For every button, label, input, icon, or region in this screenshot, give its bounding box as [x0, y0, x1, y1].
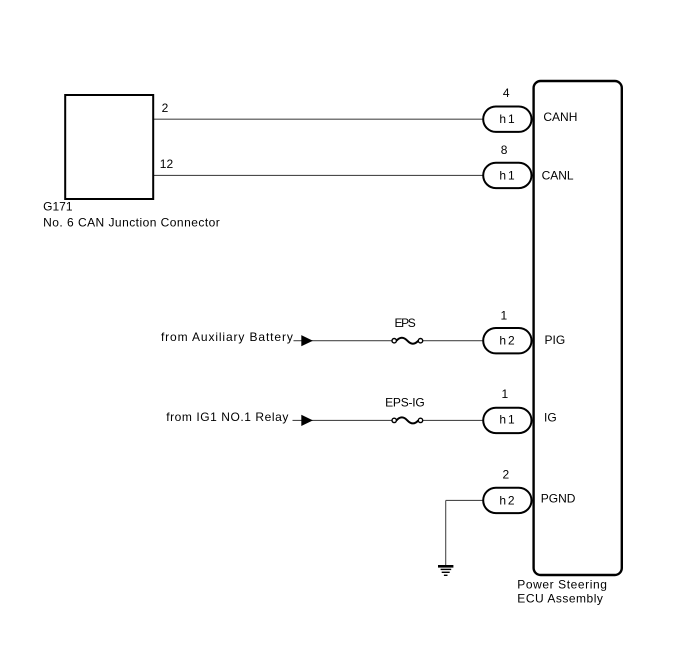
svg-text:PGND: PGND: [541, 491, 576, 505]
svg-text:Power Steering: Power Steering: [517, 577, 607, 591]
svg-text:h1: h1: [499, 168, 515, 182]
svg-text:4: 4: [503, 86, 510, 100]
svg-text:G171: G171: [43, 199, 73, 213]
svg-text:CANL: CANL: [542, 168, 574, 182]
svg-text:EPS-IG: EPS-IG: [385, 396, 425, 410]
svg-text:2: 2: [503, 468, 510, 482]
svg-text:2: 2: [162, 101, 169, 115]
svg-text:EPS: EPS: [395, 316, 416, 330]
svg-text:ECU Assembly: ECU Assembly: [517, 591, 603, 605]
svg-text:h2: h2: [499, 493, 515, 507]
svg-text:from IG1 NO.1 Relay: from IG1 NO.1 Relay: [166, 410, 288, 424]
svg-text:No. 6 CAN Junction Connector: No. 6 CAN Junction Connector: [43, 216, 220, 230]
svg-text:IG: IG: [544, 410, 557, 424]
svg-text:PIG: PIG: [545, 333, 566, 347]
svg-text:h1: h1: [499, 412, 515, 426]
svg-text:8: 8: [501, 143, 508, 157]
svg-text:from Auxiliary Battery: from Auxiliary Battery: [161, 330, 293, 344]
svg-text:h2: h2: [499, 334, 515, 348]
svg-text:12: 12: [160, 157, 174, 171]
svg-text:CANH: CANH: [543, 110, 577, 124]
svg-text:h1: h1: [499, 112, 515, 126]
svg-text:1: 1: [501, 387, 508, 401]
svg-text:1: 1: [501, 308, 508, 322]
